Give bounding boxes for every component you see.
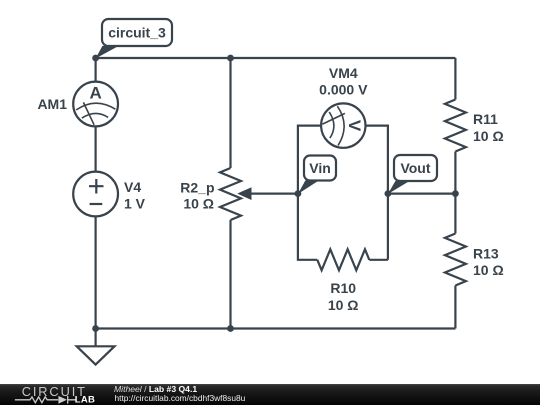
resistor R10 (317, 249, 369, 270)
wire R11 to mid node (454, 152, 456, 194)
node label Vout box (394, 155, 437, 181)
junction node bottom-left (92, 325, 99, 332)
junction node right rail (452, 190, 459, 197)
wire top rail (96, 57, 456, 59)
junction node top-mid (227, 55, 234, 62)
VM4 meter face (rotated) (323, 106, 345, 145)
node label Vout pointer (388, 181, 410, 194)
node label Vin box (304, 156, 336, 181)
wire pot bottom lead (229, 220, 231, 329)
wire mid node to R13 (454, 194, 456, 234)
wire Vin node up to voltmeter (298, 126, 321, 194)
V4 plus sign (89, 179, 104, 194)
svg-text:10 Ω: 10 Ω (473, 128, 504, 144)
junction node bottom-mid (227, 325, 234, 332)
wire AM1 to V4 (94, 127, 96, 172)
svg-text:VM4: VM4 (329, 65, 358, 81)
node label circuit_3 pointer (96, 46, 119, 59)
voltmeter VM4 (321, 103, 365, 147)
svg-text:10 Ω: 10 Ω (328, 297, 359, 313)
svg-text:http://circuitlab.com/cbdhf3wf: http://circuitlab.com/cbdhf3wf8su8u (115, 393, 246, 403)
svg-text:Vin: Vin (309, 160, 331, 176)
footer bar (0, 384, 540, 405)
voltage source V4 (73, 172, 118, 217)
junction node Vin (295, 190, 302, 197)
wire R10 to Vout node (369, 194, 388, 260)
wire Vout node to right rail (388, 193, 456, 195)
ammeter AM1 (73, 82, 118, 127)
svg-text:R10: R10 (330, 280, 356, 296)
node label circuit_3 box (102, 19, 172, 46)
svg-text:R11: R11 (473, 111, 498, 127)
wire R13 to bottom rail (454, 286, 456, 329)
wire pot top lead (229, 58, 231, 168)
V4 minus sign (90, 203, 103, 205)
junction node top-left (92, 55, 99, 62)
potentiometer R2_p (220, 168, 241, 220)
junction node Vout (385, 190, 392, 197)
wire right rail top to R11 (454, 58, 456, 100)
resistor R13 (445, 234, 466, 286)
CircuitLab logo squiggle (15, 396, 76, 404)
node label Vin pointer (298, 180, 319, 194)
svg-text:R2_p: R2_p (180, 179, 214, 195)
svg-text:10 Ω: 10 Ω (473, 262, 504, 278)
wire Vin node down to R10 (298, 194, 317, 260)
svg-text:V: V (345, 120, 364, 132)
pot wiper arrowhead (239, 188, 252, 199)
svg-text:Vout: Vout (400, 160, 430, 176)
wire voltmeter to Vout node (366, 126, 388, 194)
resistor R11 (445, 100, 466, 152)
ground (77, 329, 115, 365)
svg-text:LAB: LAB (75, 395, 95, 405)
svg-text:AM1: AM1 (37, 96, 67, 112)
svg-text:10 Ω: 10 Ω (183, 195, 214, 211)
wire V4 to bottom (94, 217, 96, 329)
svg-text:circuit_3: circuit_3 (108, 25, 166, 41)
svg-text:1 V: 1 V (124, 195, 146, 211)
svg-text:R13: R13 (473, 245, 499, 261)
wire bottom rail (96, 327, 456, 329)
wire left rail upper (94, 58, 96, 82)
svg-text:V4: V4 (124, 179, 141, 195)
svg-text:A: A (89, 83, 101, 102)
wire pot wiper to Vin node (250, 193, 298, 195)
svg-text:0.000 V: 0.000 V (319, 81, 368, 97)
AM1 meter face (76, 102, 115, 124)
